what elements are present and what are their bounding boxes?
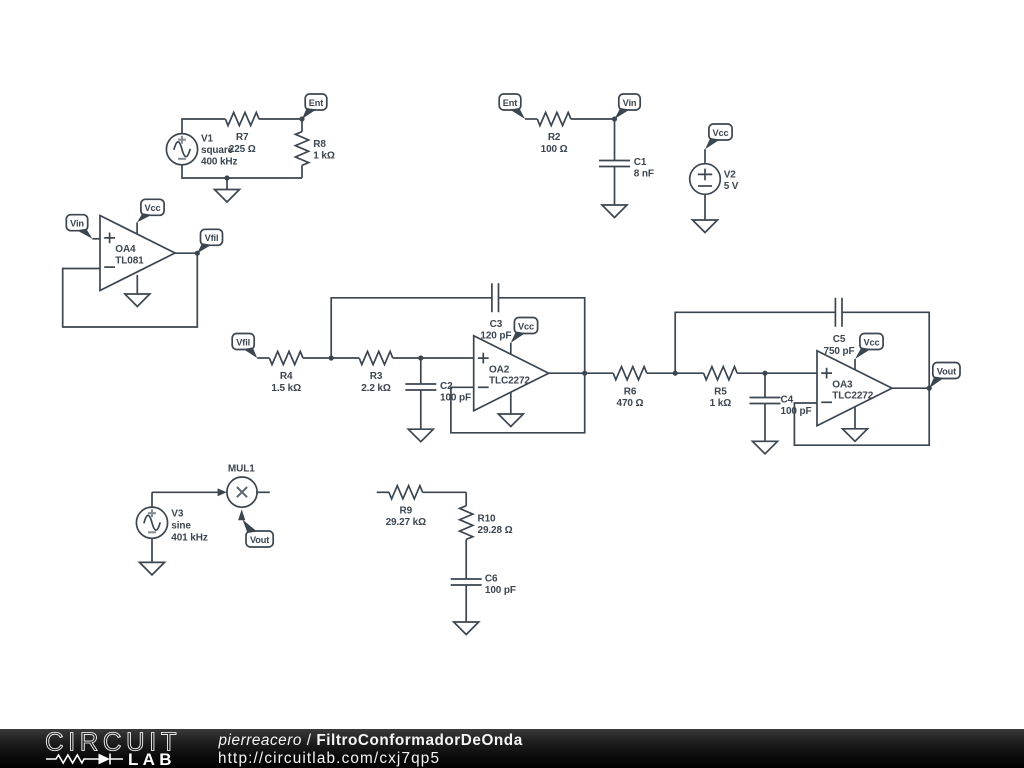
svg-text:http://circuitlab.com/cxj7qp5: http://circuitlab.com/cxj7qp5 bbox=[218, 750, 440, 767]
svg-text:pierreacero / FiltroConformado: pierreacero / FiltroConformadorDeOnda bbox=[218, 732, 523, 749]
svg-text:LAB: LAB bbox=[128, 750, 176, 768]
